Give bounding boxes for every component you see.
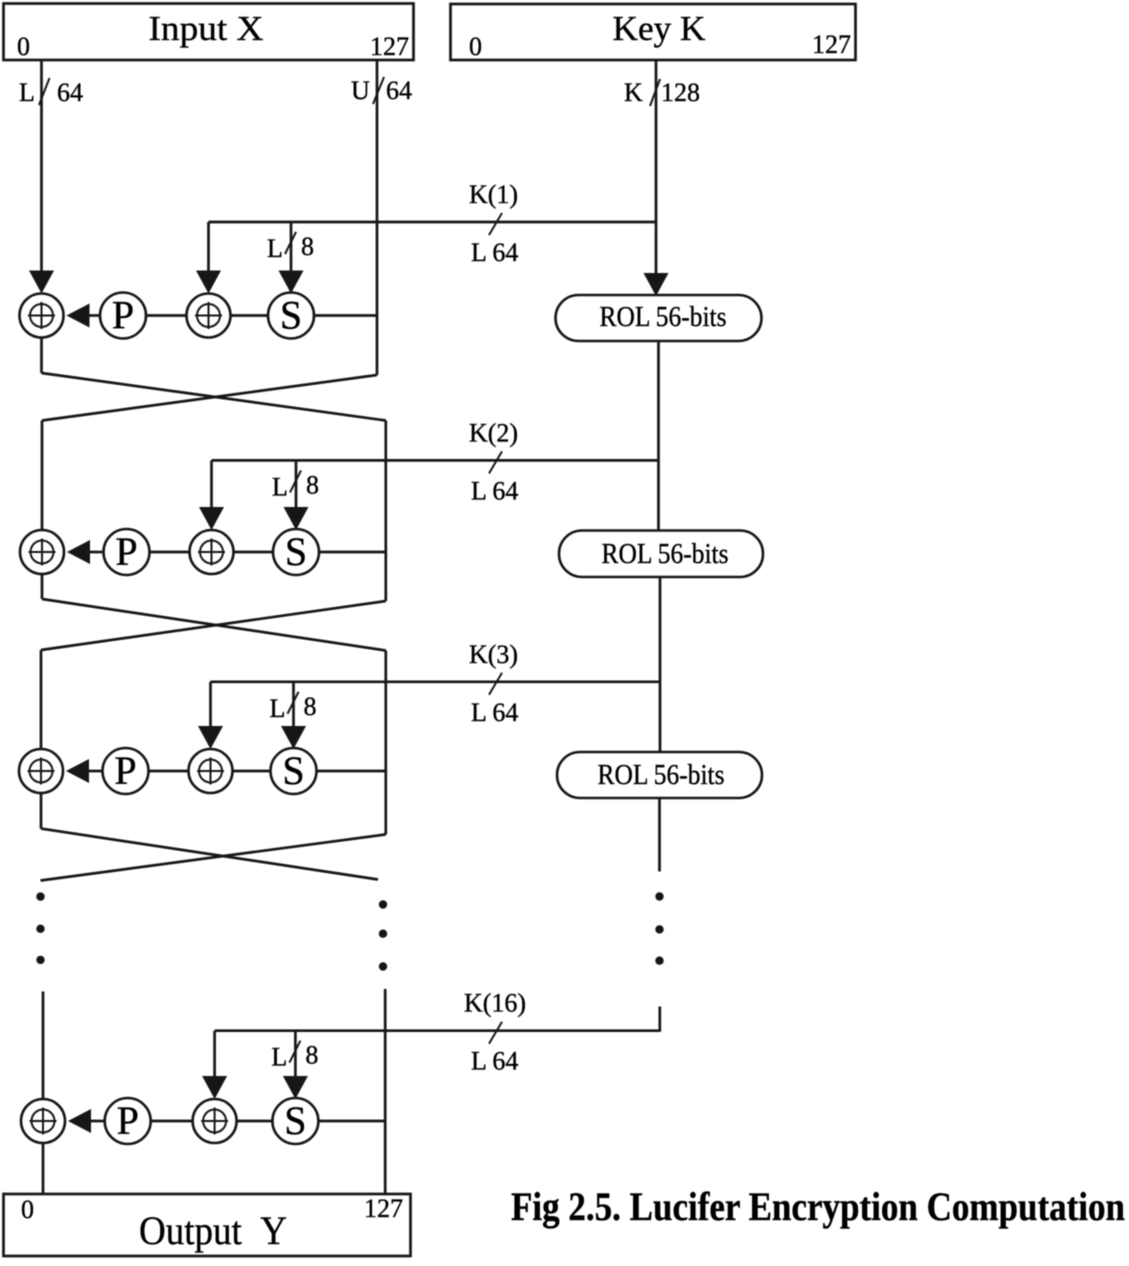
- svg-text:P: P: [117, 1098, 139, 1143]
- wire P to XOR B round 2: [150, 551, 190, 554]
- wire S to right vertical round 3: [317, 770, 386, 773]
- wire left vertical to round 2: [41, 421, 44, 531]
- wire key ROL2 to ROL3: [659, 577, 662, 752]
- svg-text:64: 64: [386, 76, 412, 105]
- XOR B (middle) round 16: [193, 1099, 237, 1143]
- wire key K vertical with arrow into ROL 1: [644, 60, 669, 296]
- Output Y register box: [4, 1194, 411, 1256]
- svg-text:S: S: [284, 1098, 306, 1143]
- P permutation circle round 1: [100, 293, 146, 339]
- wire P to XOR B round 16: [151, 1120, 193, 1123]
- wire XOR B to S round 1: [231, 314, 269, 317]
- P permutation circle round 2: [104, 529, 150, 575]
- svg-text:L: L: [19, 78, 35, 107]
- svg-text:ROL 56-bits: ROL 56-bits: [600, 302, 727, 333]
- P permutation circle round 16: [105, 1098, 151, 1144]
- svg-text:128: 128: [661, 78, 700, 107]
- wire S to right vertical round 1: [314, 314, 377, 317]
- label L / 8 round 1: [267, 232, 314, 263]
- wire P to XOR B round 3: [149, 770, 189, 773]
- svg-text:Fig 2.5. Lucifer Encryption Co: Fig 2.5. Lucifer Encryption Computation: [511, 1184, 1125, 1229]
- svg-text:ROL 56-bits: ROL 56-bits: [598, 760, 725, 791]
- wire round-16 XOR A down to output box: [42, 1143, 45, 1194]
- wire drop to XOR-B round 16 with arrow: [202, 1031, 227, 1099]
- svg-text:L 64: L 64: [471, 698, 518, 727]
- S-box circle round 3: [271, 748, 317, 794]
- wire right input U (x=377): [376, 60, 379, 375]
- arrow into XOR A from P round 1: [67, 304, 101, 328]
- wire key resumes to K(16) corner: [658, 1007, 661, 1032]
- label K(3) with / L 64: [469, 640, 518, 727]
- wire drop to XOR-B round 3 with arrow: [198, 682, 223, 749]
- svg-text:L 64: L 64: [471, 476, 518, 505]
- svg-text:U: U: [351, 76, 370, 105]
- wire XOR B to S round 16: [237, 1120, 273, 1123]
- wire S to right vertical round 16: [318, 1120, 385, 1123]
- label K(1) with / L 64: [469, 180, 518, 267]
- svg-text:S: S: [282, 748, 304, 793]
- svg-text:P: P: [114, 748, 136, 793]
- swap crossing 3 diagonal left-to-right: [41, 829, 378, 880]
- XOR B (middle) round 2: [190, 530, 234, 574]
- svg-text:S: S: [280, 293, 302, 338]
- svg-text:L: L: [270, 694, 286, 723]
- svg-text:8: 8: [305, 1041, 318, 1070]
- wire left vertical to round 3: [40, 650, 43, 749]
- label L / 8 round 3: [270, 692, 317, 723]
- wire drop to S-box round 2 with arrow: [284, 460, 309, 530]
- wire right vertical round 3: [384, 651, 387, 835]
- label K(16) with / L 64: [464, 989, 526, 1076]
- wire left input L (x=41.5) with arrow into round-1 XOR: [29, 60, 54, 294]
- svg-text:0: 0: [17, 32, 30, 61]
- svg-text:S: S: [285, 529, 307, 574]
- svg-text:L 64: L 64: [471, 238, 518, 267]
- ROL 56-bits block 2: [559, 531, 763, 578]
- arrow into XOR A from P round 16: [68, 1109, 105, 1133]
- wire drop to S-box round 1 with arrow: [279, 222, 304, 294]
- arrow into XOR A from P round 3: [66, 759, 103, 783]
- wire subkey K(3) horizontal: [211, 680, 660, 683]
- Input X register box: [4, 4, 414, 62]
- Key K register box: [451, 4, 856, 61]
- swap crossing 1 diagonal right-to-left: [42, 375, 377, 421]
- svg-text:8: 8: [301, 232, 314, 261]
- svg-text:P: P: [112, 293, 134, 338]
- wire drop to XOR-B round 1 with arrow: [196, 222, 221, 294]
- svg-text:K: K: [624, 78, 643, 107]
- swap crossing 2 diagonal right-to-left: [41, 601, 386, 650]
- svg-text:Output Y: Output Y: [139, 1208, 287, 1253]
- XOR A (left) round 16: [21, 1099, 65, 1143]
- svg-text:0: 0: [21, 1195, 34, 1224]
- arrow into XOR A from P round 2: [67, 540, 104, 564]
- S-box circle round 2: [273, 529, 319, 575]
- XOR A (left) round 2: [20, 530, 64, 574]
- wire below round-1 XOR A: [40, 338, 43, 374]
- svg-text:L: L: [271, 1043, 287, 1072]
- wire left vertical into round 16: [42, 992, 45, 1100]
- wire key below ROL3: [658, 798, 661, 872]
- ellipsis dots key column: [655, 892, 663, 965]
- label L / 8 round 2: [272, 470, 319, 501]
- svg-text:L: L: [267, 234, 283, 263]
- XOR A (left) round 1: [20, 294, 64, 338]
- svg-text:8: 8: [306, 470, 319, 499]
- wire XOR B to S round 3: [233, 770, 271, 773]
- wire P to XOR B round 1: [146, 314, 187, 317]
- label L / 8 round 16: [271, 1041, 318, 1072]
- wire drop to XOR-B round 2 with arrow: [199, 460, 224, 530]
- svg-text:127: 127: [812, 30, 851, 59]
- ROL 56-bits block 3: [557, 752, 762, 798]
- wire subkey K(2) horizontal: [212, 459, 659, 462]
- wire S to right vertical round 2: [319, 551, 386, 554]
- wire subkey K(1) horizontal: [209, 221, 657, 224]
- svg-text:K(16): K(16): [464, 989, 526, 1018]
- wire drop to S-box round 3 with arrow: [281, 682, 306, 749]
- wire right vertical round 2: [384, 421, 387, 602]
- label K / 128: [624, 78, 700, 107]
- ellipsis dots left column: [36, 892, 44, 964]
- caption Fig 2.5: [511, 1184, 1125, 1229]
- ROL 56-bits block 1: [556, 295, 762, 341]
- svg-text:K(1): K(1): [469, 180, 518, 209]
- P permutation circle round 3: [103, 748, 149, 794]
- svg-text:127: 127: [370, 32, 409, 61]
- wire key ROL1 to ROL2: [657, 341, 660, 531]
- label K(2) with / L 64: [469, 418, 518, 505]
- swap crossing 3 diagonal right-to-left: [41, 834, 386, 880]
- swap crossing 1 diagonal left-to-right: [42, 373, 386, 421]
- svg-text:0: 0: [469, 32, 482, 61]
- ellipsis dots right column: [379, 900, 387, 970]
- wire drop to S-box round 16 with arrow: [283, 1031, 308, 1099]
- svg-text:8: 8: [304, 692, 317, 721]
- label L / 64: [19, 78, 83, 107]
- wire below round-3 XOR A: [40, 793, 43, 829]
- wire subkey K(16) horizontal: [215, 1029, 660, 1032]
- XOR A (left) round 3: [19, 749, 63, 793]
- XOR B (middle) round 3: [189, 749, 233, 793]
- svg-text:K(3): K(3): [469, 640, 518, 669]
- svg-text:P: P: [115, 529, 137, 574]
- wire right vertical round 16 to output: [384, 989, 387, 1194]
- svg-text:Input X: Input X: [149, 9, 264, 48]
- svg-text:L: L: [272, 472, 288, 501]
- S-box circle round 16: [272, 1098, 318, 1144]
- svg-text:L 64: L 64: [471, 1047, 518, 1076]
- svg-text:Key K: Key K: [613, 9, 706, 48]
- wire below round-2 XOR A: [41, 574, 44, 599]
- swap crossing 2 diagonal left-to-right: [42, 599, 386, 651]
- S-box circle round 1: [268, 293, 314, 339]
- svg-text:64: 64: [57, 78, 83, 107]
- svg-text:K(2): K(2): [469, 418, 518, 447]
- svg-text:127: 127: [364, 1194, 403, 1223]
- wire XOR B to S round 2: [234, 551, 274, 554]
- svg-text:ROL 56-bits: ROL 56-bits: [602, 539, 729, 570]
- XOR B (middle) round 1: [187, 294, 231, 338]
- label U / 64: [351, 76, 412, 105]
